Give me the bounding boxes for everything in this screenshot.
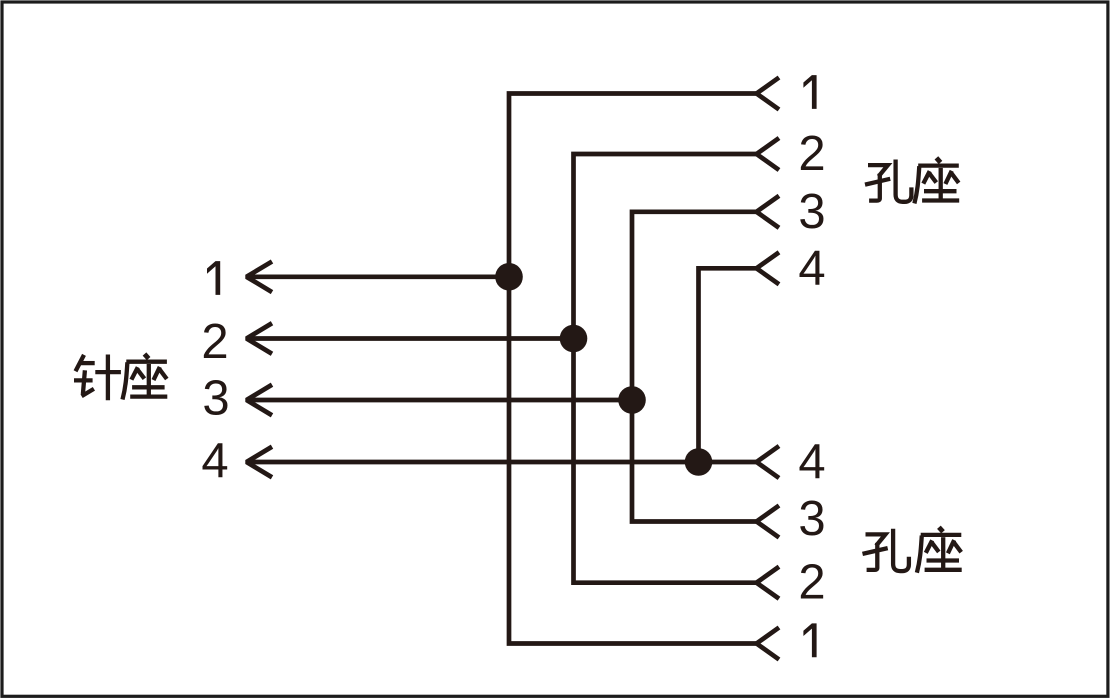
pin number 1 (bottom socket)	[803, 623, 816, 657]
bottom socket pin 2 arrowhead	[757, 567, 780, 599]
bottom socket pin 4 arrowhead	[757, 446, 780, 478]
pin number 1 (top socket)	[803, 75, 816, 109]
pin header 2 arrowhead	[247, 323, 273, 354]
wire header pin4 to bottom socket pin4	[247, 460, 757, 465]
svg-text:3: 3	[798, 492, 825, 546]
svg-text:2: 2	[798, 127, 825, 181]
svg-text:2: 2	[201, 315, 228, 369]
wire net3: top socket pin3 to header pin3 to bottom socket pin3	[632, 212, 757, 522]
svg-text:3: 3	[798, 185, 825, 239]
wire header pin1 branch	[247, 274, 510, 279]
pin header 3 arrowhead	[247, 385, 273, 416]
label 孔座 (bottom socket)	[863, 527, 962, 573]
wire net2: top socket pin2 to header pin2 to bottom socket pin2	[574, 154, 757, 583]
wire header pin3 branch	[247, 398, 633, 403]
junction net2	[560, 325, 588, 353]
top socket pin 2 arrowhead	[757, 138, 780, 170]
junction net3	[618, 386, 646, 414]
top socket pin 3 arrowhead	[757, 196, 780, 228]
wire net1: top socket pin1 to header pin1 to bottom socket pin1	[509, 94, 757, 644]
svg-text:2: 2	[798, 556, 825, 610]
pin header 1 arrowhead	[247, 262, 273, 293]
junction net1	[495, 263, 523, 291]
bottom socket pin 3 arrowhead	[757, 506, 780, 538]
pin header 4 arrowhead	[247, 447, 273, 478]
svg-text:4: 4	[798, 435, 825, 489]
svg-text:4: 4	[798, 241, 825, 295]
top socket pin 4 arrowhead	[757, 252, 780, 284]
label 针座 (pin header)	[74, 354, 167, 400]
junction net4	[685, 448, 713, 476]
svg-text:4: 4	[201, 434, 228, 488]
label 孔座 (top socket)	[865, 158, 959, 204]
top socket pin 1 arrowhead	[757, 78, 780, 110]
wire header pin2 branch	[247, 336, 574, 341]
wire net4 vertical: top socket pin4 drop	[699, 268, 757, 462]
svg-text:3: 3	[202, 372, 229, 426]
bottom socket pin 1 arrowhead	[757, 628, 780, 660]
pin number 1 (header)	[207, 261, 220, 295]
